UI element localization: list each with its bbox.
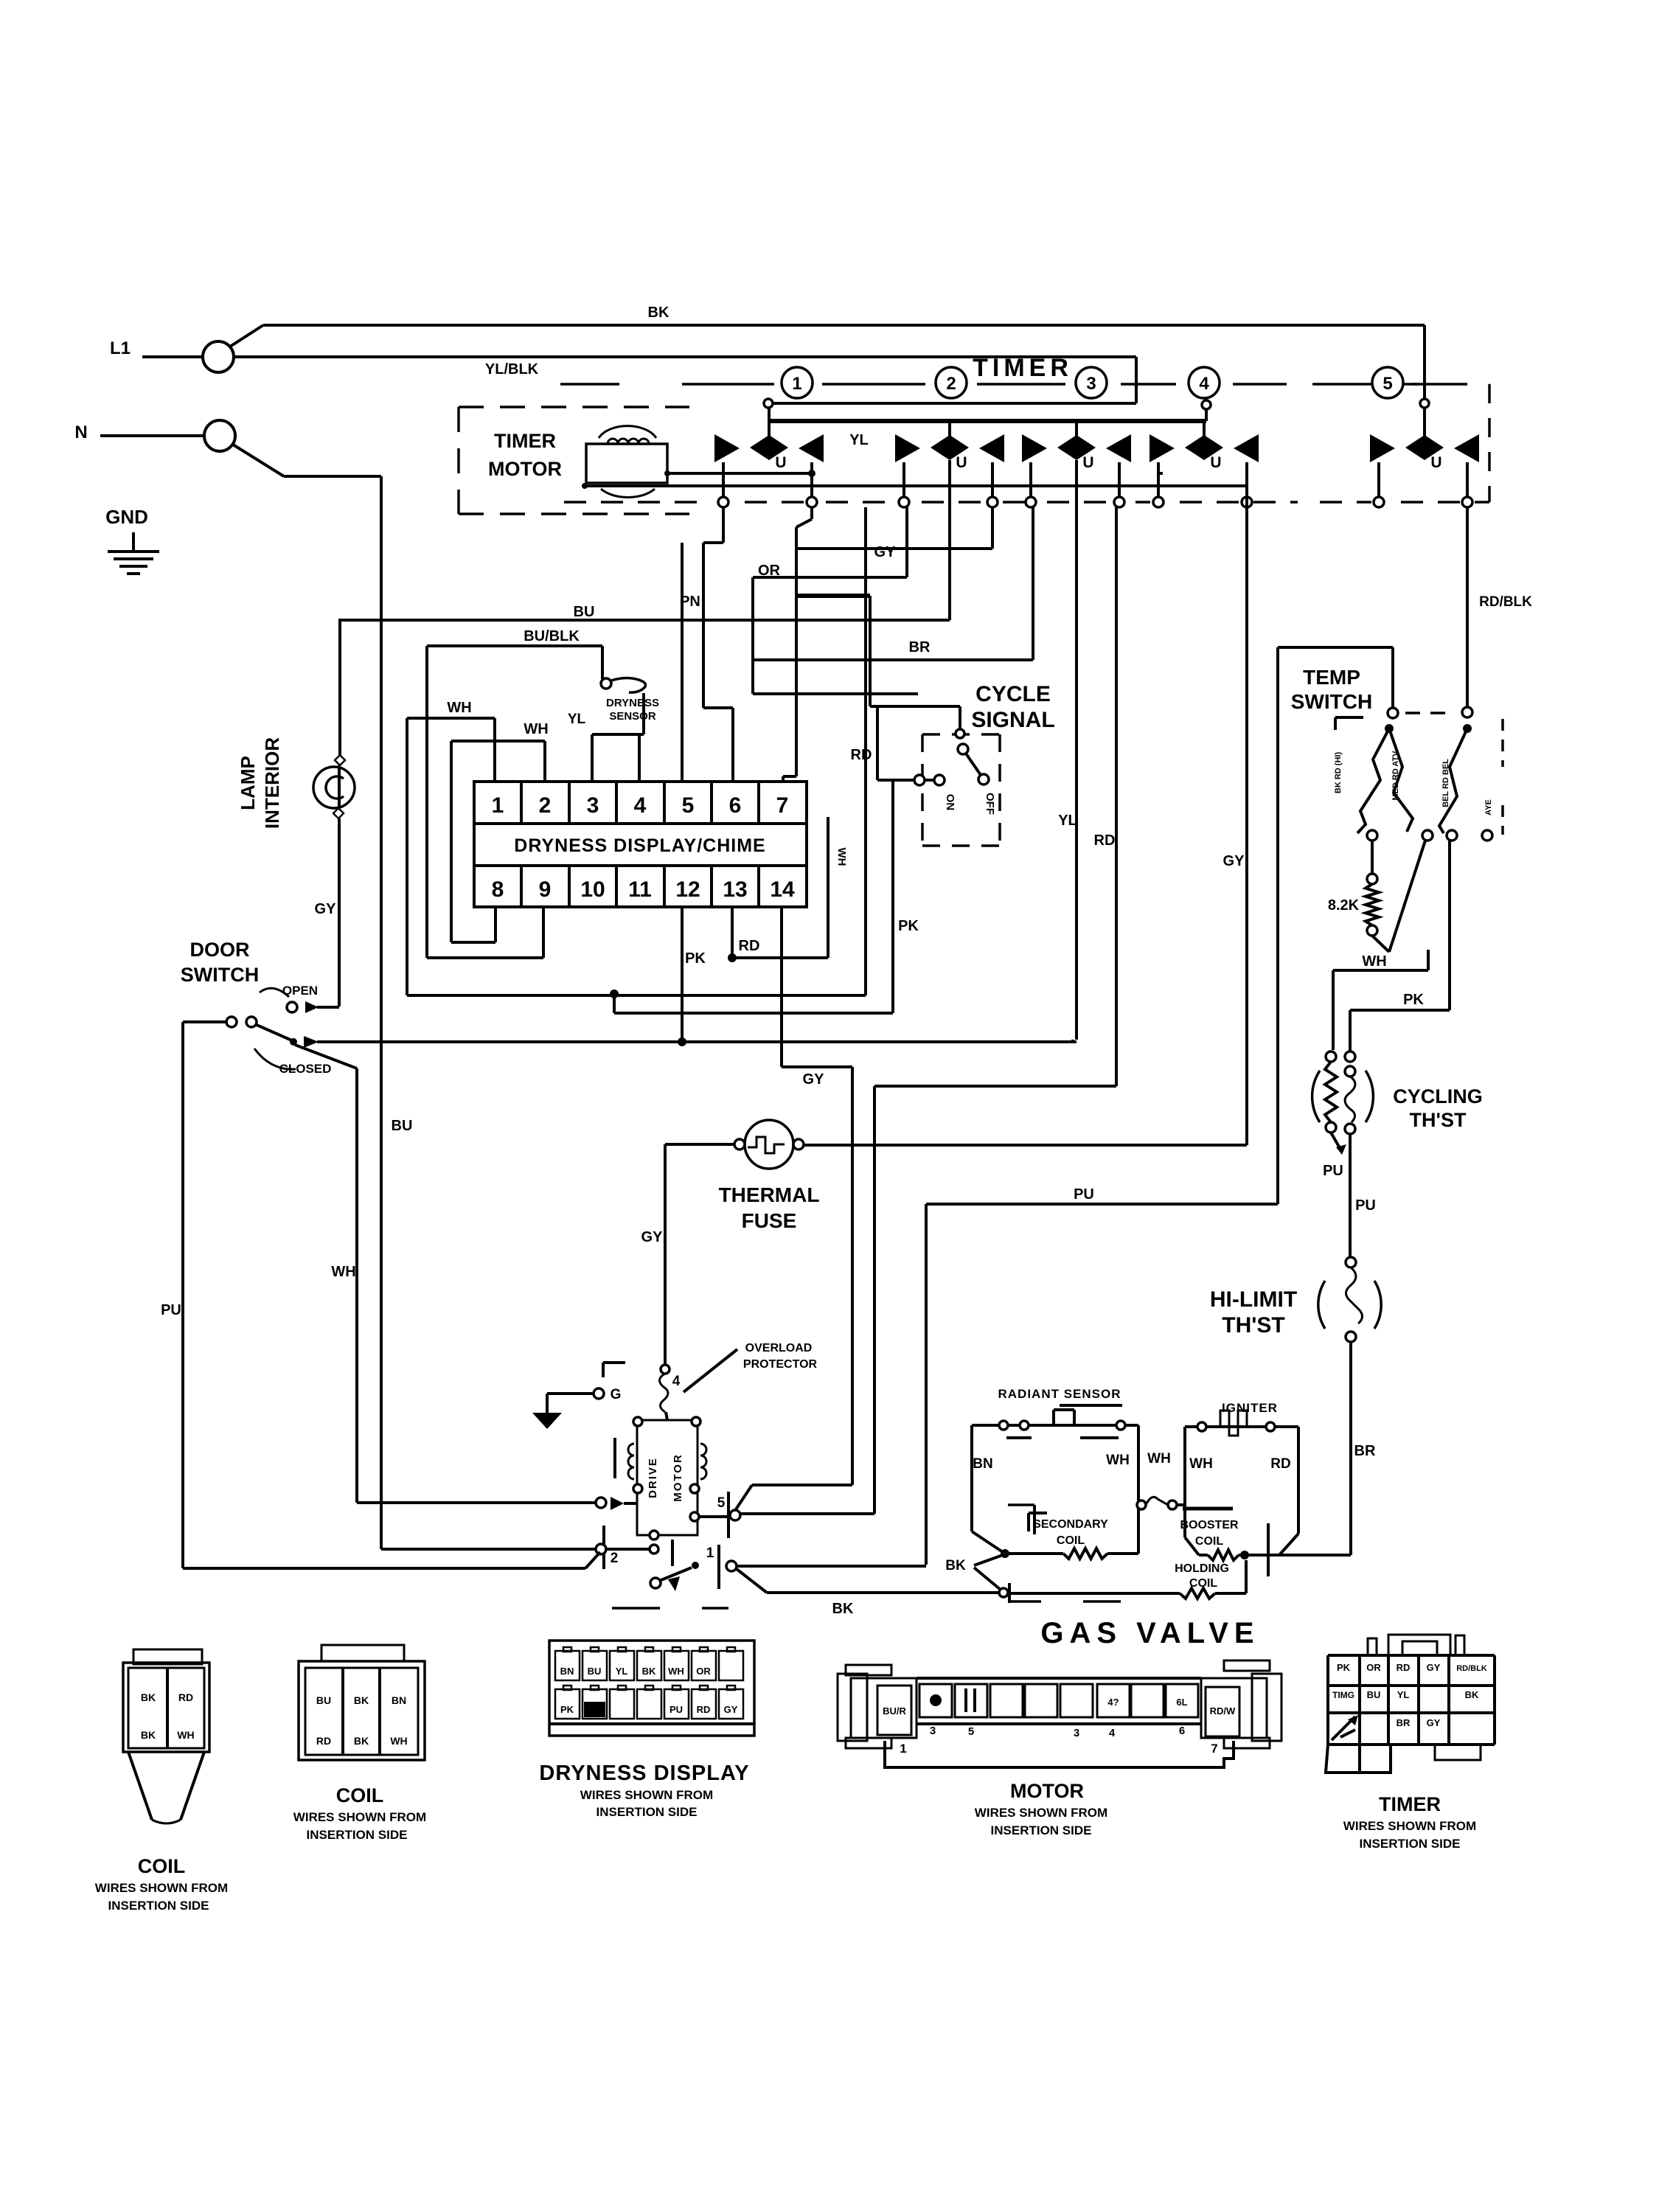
motor connector cells: [919, 1684, 952, 1717]
timer motor symbol: [586, 444, 667, 483]
svg-text:N: N: [74, 422, 87, 442]
svg-text:2: 2: [946, 374, 956, 394]
svg-text:BU: BU: [392, 1118, 413, 1134]
svg-text:WH: WH: [1189, 1456, 1213, 1472]
wire YL/BLK horizontal: [234, 355, 1136, 358]
terminal circle L1: [203, 341, 234, 372]
svg-text:HOLDING: HOLDING: [1175, 1562, 1229, 1575]
coil connector 2 inner: [305, 1668, 418, 1755]
svg-text:TIMER: TIMER: [973, 354, 1073, 382]
cycle signal terminals: [914, 775, 925, 785]
wire fuse left: [665, 1143, 734, 1146]
svg-text:INTERIOR: INTERIOR: [261, 737, 283, 829]
svg-text:INSERTION SIDE: INSERTION SIDE: [991, 1823, 1092, 1837]
timer motor dashed box: [459, 406, 689, 408]
wire BK diagonals: [999, 1588, 1008, 1597]
svg-text:BU: BU: [316, 1694, 331, 1706]
wire holding coil loop: [1245, 1560, 1248, 1593]
wire BU horizontal from lamp: [338, 619, 950, 622]
svg-text:PU: PU: [1323, 1163, 1343, 1179]
radiant sensor ticks: [1006, 1436, 1032, 1439]
timer cam switch 3: [1022, 434, 1047, 462]
svg-text:BR: BR: [909, 639, 931, 655]
svg-text:1: 1: [792, 374, 801, 394]
holding coil zigzag: [1008, 1592, 1180, 1595]
dryness box cell dividers bottom: [520, 866, 523, 907]
wire timer 4L drop: [1157, 473, 1160, 497]
svg-text:DRYNESS DISPLAY/CHIME: DRYNESS DISPLAY/CHIME: [514, 835, 765, 856]
svg-text:WH: WH: [1106, 1453, 1130, 1468]
svg-text:YL: YL: [568, 712, 586, 727]
svg-text:WIRES SHOWN FROM: WIRES SHOWN FROM: [580, 1788, 713, 1802]
svg-text:COIL: COIL: [138, 1855, 186, 1877]
dryness display chime box outline: [474, 782, 807, 907]
svg-text:GY: GY: [803, 1071, 825, 1088]
svg-text:CYCLING: CYCLING: [1393, 1085, 1483, 1107]
gas valve dashed marks: [1009, 1600, 1041, 1603]
wire PK from timer 1L: [722, 507, 725, 543]
svg-text:BU: BU: [1367, 1689, 1381, 1700]
svg-text:BU: BU: [574, 604, 595, 620]
svg-text:U: U: [1430, 454, 1441, 471]
svg-text:COIL: COIL: [1057, 1534, 1085, 1547]
timer cam switch 1: [714, 434, 740, 462]
svg-text:PK: PK: [898, 918, 919, 934]
dryness box cell dividers top: [520, 782, 523, 824]
svg-text:4: 4: [1109, 1727, 1116, 1739]
timer connector tabs: [1368, 1638, 1377, 1655]
svg-text:BK: BK: [1465, 1689, 1479, 1700]
wire fuse right to timer GY: [804, 1144, 1247, 1147]
wire cell5 stub: [681, 543, 684, 782]
svg-text:L1: L1: [110, 338, 131, 358]
svg-text:BU: BU: [588, 1666, 602, 1677]
svg-text:IGNITER: IGNITER: [1222, 1401, 1278, 1415]
cycle signal switch: [959, 706, 961, 730]
timer cam switch 2: [895, 434, 920, 462]
timer bus corner to contact 4 terminal: [1205, 405, 1208, 421]
lamp interior symbol: [313, 767, 355, 808]
svg-text:BK RD (HI): BK RD (HI): [1334, 752, 1343, 794]
wire RD from timer 3R: [1115, 507, 1118, 1086]
hi-limit arcs: [1318, 1281, 1325, 1329]
door switch common wire: [183, 1020, 226, 1023]
svg-text:BR: BR: [1397, 1717, 1411, 1728]
svg-text:TEMP: TEMP: [1303, 666, 1360, 689]
thermal fuse symbol: [745, 1120, 793, 1169]
svg-text:COIL: COIL: [336, 1784, 384, 1806]
wire timer 1R down: [810, 507, 813, 519]
svg-text:TIMG: TIMG: [1332, 1690, 1354, 1700]
temp switch dashed right bracket: [1501, 719, 1504, 767]
motor terminals: [633, 1417, 642, 1426]
svg-text:6: 6: [729, 793, 742, 818]
svg-text:BK: BK: [648, 305, 669, 321]
svg-text:WH: WH: [331, 1264, 355, 1280]
terminal circle timer 1 feed: [764, 399, 773, 408]
svg-text:GY: GY: [874, 544, 897, 560]
svg-text:TIMER: TIMER: [1379, 1793, 1441, 1815]
ground symbol: [132, 532, 135, 552]
svg-text:INSERTION SIDE: INSERTION SIDE: [1360, 1837, 1461, 1851]
svg-text:OFF: OFF: [984, 793, 996, 815]
svg-text:7: 7: [776, 793, 789, 818]
svg-text:BK: BK: [945, 1558, 966, 1573]
wire PU vertical: [181, 1022, 184, 1568]
svg-text:THERMAL: THERMAL: [719, 1183, 820, 1206]
svg-text:PU: PU: [1355, 1197, 1376, 1214]
timer cam switch 5: [1370, 434, 1395, 462]
svg-text:GY: GY: [1223, 853, 1245, 869]
svg-text:BK: BK: [141, 1691, 156, 1703]
svg-text:RD: RD: [178, 1691, 193, 1703]
svg-text:YL/BLK: YL/BLK: [485, 361, 539, 378]
wire sensor to cell3 YL: [642, 693, 645, 734]
svg-text:RD/BLK: RD/BLK: [1479, 594, 1532, 610]
svg-text:6: 6: [1179, 1725, 1185, 1737]
resistor 8.2K: [1371, 841, 1374, 874]
svg-text:WH: WH: [668, 1666, 684, 1677]
svg-text:U: U: [775, 454, 786, 471]
door switch closed throw: [295, 1045, 357, 1068]
wire WH timer route: [407, 994, 866, 997]
svg-text:RD: RD: [316, 1735, 331, 1747]
svg-text:4: 4: [634, 793, 647, 818]
wire diagonal L1 to BK line: [230, 325, 263, 347]
svg-text:TH'ST: TH'ST: [1410, 1109, 1467, 1131]
timer dashed line top extra: [1360, 383, 1419, 386]
svg-text:14: 14: [770, 877, 795, 902]
ground G terminal: [594, 1388, 604, 1399]
svg-text:GY: GY: [1427, 1717, 1441, 1728]
svg-text:INSERTION SIDE: INSERTION SIDE: [597, 1805, 698, 1819]
dryness sensor symbol: [601, 678, 611, 689]
svg-text:GY: GY: [724, 1704, 738, 1715]
svg-text:RD/W: RD/W: [1210, 1705, 1236, 1717]
timer main bus thick: [768, 419, 1206, 423]
igniter box bottom with booster coil: [1199, 1554, 1208, 1557]
circled number 2: [936, 367, 967, 398]
svg-text:CLOSED: CLOSED: [279, 1062, 332, 1076]
motor coil left: [628, 1444, 634, 1479]
svg-text:OVERLOAD: OVERLOAD: [745, 1342, 813, 1354]
temp switch box: [1276, 647, 1279, 1204]
wire WH wrap cell2-cell8: [451, 740, 545, 742]
svg-text:13: 13: [723, 877, 747, 902]
svg-text:WIRES SHOWN FROM: WIRES SHOWN FROM: [95, 1881, 228, 1895]
wire RD timer route: [874, 1085, 1116, 1088]
wire cell4 stub: [638, 734, 641, 782]
overload pointer: [684, 1349, 737, 1392]
secondary coil zigzag: [1005, 1552, 1063, 1555]
wire timer bus lower: [586, 484, 1247, 487]
svg-text:3: 3: [1074, 1727, 1079, 1739]
svg-text:SWITCH: SWITCH: [1291, 690, 1372, 713]
motor connector bottom plate: [885, 1741, 1234, 1767]
wire N switch diagonal: [233, 445, 284, 476]
wire RD/BLK from timer 5R: [1466, 507, 1469, 707]
wire cycle left terminal feed: [876, 706, 879, 780]
cycling thst right leg: [1345, 1051, 1355, 1062]
svg-text:5: 5: [968, 1725, 974, 1738]
svg-text:5: 5: [1382, 374, 1392, 394]
svg-text:SIGNAL: SIGNAL: [971, 708, 1054, 732]
door switch throw diagonal: [257, 1025, 293, 1041]
svg-text:PU: PU: [1074, 1186, 1094, 1203]
motor internal box: [637, 1420, 698, 1535]
terminal circle N: [204, 420, 235, 451]
wire N to terminal: [100, 434, 204, 437]
wire BR stub: [753, 692, 918, 695]
svg-text:RD: RD: [1094, 832, 1116, 849]
cycling thst arcs: [1312, 1071, 1320, 1122]
lamp terminal diamonds: [335, 755, 345, 765]
timer connector extra row: [1326, 1745, 1391, 1773]
svg-text:TIMER: TIMER: [494, 430, 556, 452]
cycling thst left leg: [1326, 1051, 1336, 1062]
svg-text:BK: BK: [354, 1735, 369, 1747]
wire N to vertical: [284, 475, 381, 478]
wire WH to cell1: [407, 717, 495, 720]
svg-text:WH: WH: [1362, 953, 1386, 970]
wire PU to hi-limit: [1349, 1134, 1352, 1258]
svg-text:G: G: [611, 1387, 622, 1402]
svg-text:MOTOR: MOTOR: [1010, 1780, 1084, 1802]
svg-text:4?: 4?: [1107, 1697, 1119, 1708]
svg-text:OR: OR: [758, 563, 781, 579]
svg-text:YL: YL: [1397, 1689, 1410, 1700]
svg-text:U: U: [1210, 454, 1221, 471]
hi-limit contacts: [1346, 1257, 1356, 1267]
svg-text:SECONDARY: SECONDARY: [1033, 1518, 1108, 1531]
motor start switch: [650, 1578, 661, 1588]
svg-text:MOTOR: MOTOR: [672, 1453, 684, 1502]
wire GY fuse down: [664, 1144, 667, 1365]
svg-text:BN: BN: [560, 1666, 574, 1677]
svg-text:OR: OR: [1366, 1662, 1381, 1673]
svg-text:U: U: [1082, 454, 1093, 471]
timer dashed line top: [560, 383, 619, 386]
svg-text:2: 2: [539, 793, 552, 818]
svg-text:BK: BK: [832, 1601, 854, 1617]
terminal RD/BLK: [1462, 707, 1472, 717]
svg-text:MED RD ATV: MED RD ATV: [1391, 751, 1400, 801]
wire PU down to motor switch: [925, 1204, 928, 1565]
coil connector 2 dividers: [341, 1668, 344, 1755]
svg-text:RD: RD: [697, 1704, 711, 1715]
temp switch bracket: [1335, 716, 1363, 719]
circled number 5: [1372, 367, 1403, 398]
svg-text:5: 5: [682, 793, 695, 818]
svg-text:PK: PK: [1337, 1662, 1351, 1673]
wire WH down to motor: [355, 1068, 358, 1503]
circled number 3: [1076, 367, 1107, 398]
svg-text:1: 1: [492, 793, 504, 818]
wire timer 2L OR drop: [905, 507, 908, 577]
wire YL corner: [1073, 1040, 1077, 1043]
svg-text:4: 4: [672, 1374, 681, 1389]
ground bracket: [603, 1361, 625, 1364]
svg-text:PROTECTOR: PROTECTOR: [743, 1358, 818, 1371]
wire WH to motor 4: [357, 1501, 599, 1504]
motor connector body: [917, 1677, 1201, 1680]
svg-text:BU/R: BU/R: [883, 1705, 906, 1717]
svg-text:BR: BR: [1354, 1443, 1376, 1459]
wire YL/BLK drop: [1135, 357, 1138, 403]
motor connector right end: [1252, 1674, 1281, 1741]
timer connector grid: [1328, 1654, 1495, 1657]
svg-text:INSERTION SIDE: INSERTION SIDE: [108, 1899, 209, 1913]
svg-text:RD: RD: [1397, 1662, 1411, 1673]
svg-text:CYCLE: CYCLE: [975, 682, 1051, 706]
wire GY to fuse from timer 4R: [1245, 486, 1248, 1145]
svg-text:DOOR: DOOR: [190, 939, 250, 961]
svg-text:8: 8: [492, 877, 504, 902]
svg-text:BK: BK: [354, 1694, 369, 1706]
svg-text:6L: 6L: [1176, 1697, 1187, 1708]
wire WH temp: [1427, 950, 1430, 970]
timer connector bottom tab: [1435, 1745, 1481, 1760]
door switch closed arc: [254, 1048, 296, 1069]
thermal fuse terminals: [734, 1139, 745, 1150]
svg-text:BK: BK: [642, 1666, 656, 1677]
temp switch wafer fan 2: [1389, 728, 1413, 832]
svg-text:1: 1: [900, 1742, 906, 1756]
svg-text:RD: RD: [739, 938, 760, 954]
wire flame switch link: [1137, 1500, 1146, 1509]
svg-text:3: 3: [1086, 374, 1096, 394]
svg-text:YL: YL: [616, 1666, 628, 1677]
svg-text:INSERTION SIDE: INSERTION SIDE: [307, 1828, 408, 1842]
wire BU drop from timer 2C: [948, 460, 951, 620]
coil connector 2 tab: [321, 1645, 404, 1661]
motor connector cell marks: [930, 1694, 942, 1706]
svg-text:9: 9: [539, 877, 552, 902]
svg-text:RADIANT SENSOR: RADIANT SENSOR: [998, 1387, 1121, 1401]
timer connector slash: [1332, 1717, 1355, 1740]
svg-text:OR: OR: [696, 1666, 711, 1677]
svg-text:GY: GY: [641, 1229, 664, 1245]
motor coil right: [700, 1444, 706, 1479]
booster coil dash: [1183, 1507, 1233, 1511]
svg-text:12: 12: [675, 877, 700, 902]
junction dot bus: [582, 483, 588, 489]
radiant box right: [1137, 1425, 1140, 1554]
svg-text:U: U: [956, 454, 967, 471]
svg-text:4: 4: [1199, 374, 1209, 394]
svg-text:LAMP: LAMP: [237, 756, 259, 810]
terminal circle BK to contact 5: [1420, 399, 1429, 408]
svg-text:11: 11: [628, 877, 652, 902]
radiant sensor box top: [972, 1424, 1138, 1427]
svg-text:3: 3: [587, 793, 599, 818]
wire motor 5 path: [752, 1484, 852, 1486]
wire PK from cell 12: [681, 907, 684, 1040]
wire RD from cell 13: [731, 907, 734, 958]
svg-text:SWITCH: SWITCH: [181, 964, 259, 986]
junction dot holding: [1240, 1551, 1249, 1559]
junction dot secondary: [1001, 1549, 1009, 1558]
radiant box left: [970, 1425, 973, 1531]
svg-text:GND: GND: [105, 506, 148, 528]
svg-text:AYE: AYE: [1484, 799, 1493, 815]
junction dot cycle PK: [610, 990, 619, 998]
dryness connector band: [549, 1722, 754, 1725]
wire N vertical trunk BU: [380, 476, 383, 1549]
svg-text:SENSOR: SENSOR: [609, 710, 656, 723]
radiant sensor contact bump: [1052, 1410, 1055, 1425]
svg-text:BU/BLK: BU/BLK: [524, 628, 580, 644]
igniter box: [1183, 1505, 1186, 1537]
timer dashed right bracket: [1488, 384, 1491, 502]
coil connector 2 outer: [299, 1661, 425, 1760]
svg-text:PU: PU: [669, 1704, 683, 1715]
svg-text:BN: BN: [392, 1694, 406, 1706]
coil connector 1 tab: [133, 1649, 202, 1664]
svg-text:8.2K: 8.2K: [1328, 897, 1360, 914]
wire motor 2: [381, 1548, 596, 1551]
motor tick bars: [613, 1438, 616, 1478]
wire PK temp: [1448, 841, 1451, 1010]
circled number 1: [782, 367, 813, 398]
svg-text:PK: PK: [1403, 992, 1424, 1008]
overload protector: [661, 1365, 669, 1374]
wire BK top horizontal: [263, 324, 1425, 327]
svg-text:BN: BN: [973, 1456, 992, 1472]
wire GY cell14 route: [780, 907, 783, 1067]
svg-text:FUSE: FUSE: [742, 1209, 797, 1232]
wire timer motor link upper: [1158, 472, 1163, 475]
coil connector 1 divider: [166, 1668, 169, 1748]
wire BU/BLK: [427, 644, 602, 647]
svg-text:WIRES SHOWN FROM: WIRES SHOWN FROM: [975, 1806, 1107, 1820]
dryness connector cells: [555, 1651, 580, 1680]
svg-text:2: 2: [611, 1551, 619, 1566]
svg-text:YL: YL: [1058, 813, 1077, 829]
secondary coil bracket: [1029, 1512, 1047, 1514]
svg-text:WH: WH: [390, 1735, 407, 1747]
cycle signal dashed box: [921, 734, 924, 846]
temp switch selector V: [1372, 936, 1389, 952]
svg-text:BK: BK: [141, 1729, 156, 1741]
coil connector 1 funnel: [128, 1752, 152, 1820]
svg-text:WH: WH: [447, 700, 471, 716]
svg-text:COIL: COIL: [1195, 1535, 1223, 1548]
svg-text:1: 1: [706, 1545, 714, 1561]
wire BR down: [1349, 1342, 1352, 1555]
svg-text:MOTOR: MOTOR: [488, 458, 562, 480]
ground arrow: [532, 1413, 562, 1429]
motor dashed box marks: [612, 1607, 660, 1610]
door switch open contact: [260, 988, 289, 997]
timer cam switch 4: [1150, 434, 1175, 462]
svg-text:5: 5: [717, 1495, 726, 1511]
svg-text:PK: PK: [560, 1704, 574, 1715]
svg-text:GAS VALVE: GAS VALVE: [1040, 1617, 1259, 1649]
svg-text:DRYNESS: DRYNESS: [606, 697, 659, 709]
svg-text:BOOSTER: BOOSTER: [1180, 1519, 1239, 1531]
svg-text:WIRES SHOWN FROM: WIRES SHOWN FROM: [1343, 1819, 1476, 1833]
wire cycle signal feed: [870, 705, 960, 708]
wire main horizontal to timer YL: [317, 1040, 1073, 1043]
coil connector 1 outer: [123, 1663, 209, 1752]
svg-text:WH: WH: [1147, 1451, 1171, 1467]
svg-text:TH'ST: TH'ST: [1222, 1313, 1284, 1338]
svg-text:7: 7: [1211, 1742, 1217, 1756]
svg-text:DRYNESS DISPLAY: DRYNESS DISPLAY: [539, 1761, 749, 1785]
wire PU to motor 2: [183, 1567, 585, 1570]
svg-text:PU: PU: [161, 1302, 181, 1318]
